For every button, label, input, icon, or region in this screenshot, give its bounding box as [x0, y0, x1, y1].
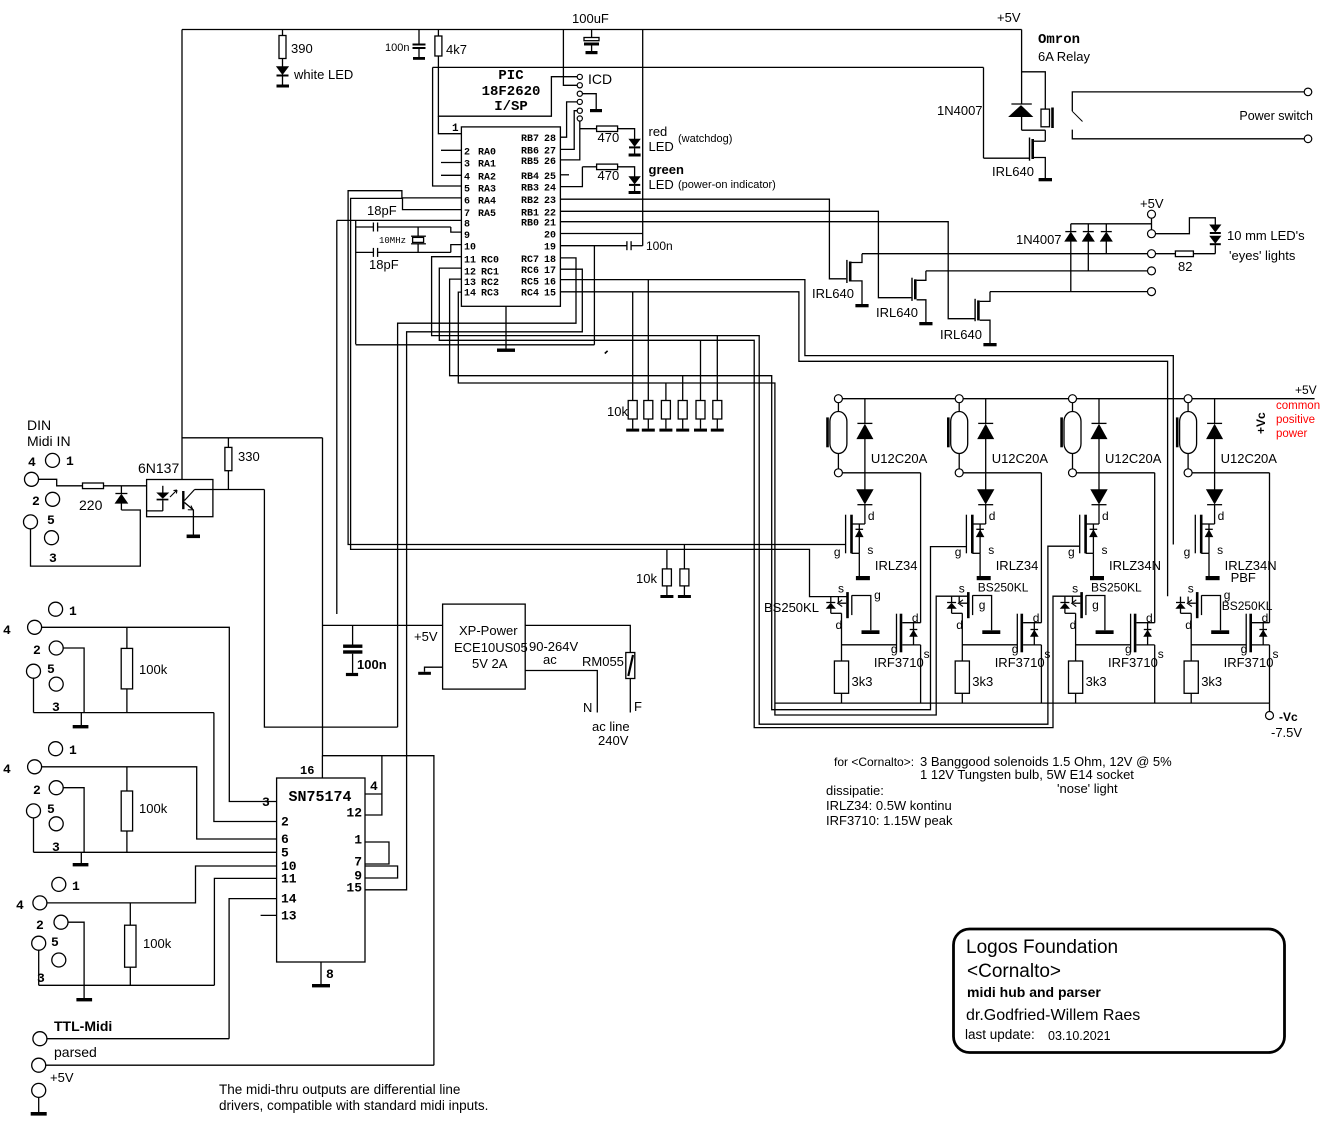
resistor R 82 [1193, 253, 1215, 255]
transistor IRF3710 driver3 [1130, 614, 1132, 653]
resistor R 3k3 driver1 [834, 661, 848, 693]
tick mark [605, 351, 608, 354]
fuse RM055 [626, 653, 635, 679]
svg-text:4: 4 [28, 455, 36, 470]
svg-text:IRF3710: 1.15W peak: IRF3710: 1.15W peak [826, 813, 953, 828]
svg-text:6N137: 6N137 [138, 460, 179, 476]
wire SN75174 pins7/9 bracket [365, 866, 398, 878]
diode D 1N4007 flyback driver4 [1214, 399, 1216, 424]
svg-text:4: 4 [370, 779, 378, 794]
svg-text:U12C20A: U12C20A [992, 451, 1049, 466]
svg-text:16: 16 [300, 764, 314, 778]
svg-text:220: 220 [79, 497, 103, 513]
svg-text:ICD: ICD [588, 71, 612, 87]
diode D U12C20A series driver4 [1214, 473, 1216, 490]
svg-text:18pF: 18pF [369, 257, 399, 272]
connector -Vc terminal [1269, 703, 1271, 711]
svg-text:RC7: RC7 [521, 255, 539, 266]
connector power switch terminals [1304, 88, 1312, 96]
capacitor C 100n at pin19 [626, 241, 628, 250]
svg-text:390: 390 [291, 41, 313, 56]
wire IRF3710 source driver2 to -Vc bus [1040, 645, 1042, 703]
svg-text:2: 2 [281, 815, 289, 830]
svg-text:9: 9 [464, 231, 470, 242]
svg-text:100n: 100n [357, 657, 387, 672]
wire pin9 to crystal [451, 227, 462, 232]
wire DIN3 ground loop to SN75174 pin5 [33, 818, 35, 852]
svg-text:1: 1 [69, 743, 77, 758]
ground TTL [83, 985, 85, 998]
wire DIN3 pin4 to SN75174 pin6 [42, 767, 277, 839]
wire driver3 gate link [1076, 644, 1131, 646]
IC U3 SN75174 body [277, 778, 365, 962]
svg-text:19: 19 [544, 243, 556, 254]
svg-text:25: 25 [544, 172, 556, 183]
wire ICD pin2 to +5V [563, 67, 577, 85]
svg-text:midi hub and parser: midi hub and parser [967, 984, 1101, 1000]
transistor IRLZ34N driver4 [1201, 523, 1214, 525]
wire PIC pin17 RC6 to SN75174 pin15 [365, 269, 582, 890]
svg-text:F: F [634, 699, 642, 714]
svg-text:2: 2 [33, 783, 41, 798]
diode D 1N4007 flyback driver1 [864, 399, 866, 424]
svg-text:100k: 100k [139, 662, 168, 677]
svg-text:DIN: DIN [27, 417, 51, 433]
wire +5V to relay [1021, 30, 1023, 105]
svg-text:18: 18 [544, 255, 556, 266]
wire 6N137 output to PIC RX [264, 490, 397, 728]
svg-text:LED: LED [649, 139, 674, 154]
svg-text:ECE10US05: ECE10US05 [454, 640, 528, 655]
wire parsed out to SN75174 pin14 [47, 1038, 229, 1040]
svg-text:Power switch: Power switch [1239, 109, 1313, 123]
wire DIN2 ground loop [33, 678, 35, 712]
svg-text:10MHz: 10MHz [379, 236, 406, 246]
svg-text:-Vc: -Vc [1279, 710, 1298, 724]
svg-text:The midi-thru outputs are diff: The midi-thru outputs are differential l… [219, 1082, 460, 1097]
svg-text:d: d [956, 618, 963, 632]
svg-text:1 12V Tungsten bulb, 5W E14 so: 1 12V Tungsten bulb, 5W E14 socket [920, 767, 1134, 782]
svg-text:100n: 100n [646, 239, 673, 253]
wire PIC pin8 Vss [337, 219, 462, 221]
svg-text:6: 6 [464, 197, 470, 208]
svg-text:1: 1 [354, 833, 362, 848]
svg-text:last update:: last update: [965, 1027, 1035, 1042]
ground PIC Vss [505, 306, 507, 348]
svg-text:13: 13 [281, 908, 297, 923]
svg-text:s: s [1188, 582, 1194, 596]
diode D U12C20A series driver1 [864, 473, 866, 490]
wire SN75174 pins1/7 bracket [365, 842, 389, 864]
wire driver1 return [842, 472, 920, 474]
6N137 internal LED [162, 486, 164, 493]
svg-text:IRLZ34: IRLZ34 [996, 558, 1039, 573]
wire driver4 gate link [1191, 644, 1246, 646]
svg-text:27: 27 [544, 146, 556, 157]
svg-text:3: 3 [464, 160, 470, 171]
svg-text:RA1: RA1 [478, 160, 496, 171]
svg-text:100n: 100n [385, 42, 409, 54]
wire PIC pin4 stub [441, 174, 461, 176]
connector solenoid 1 bottom [834, 469, 842, 477]
optocoupler U2 6N137 box [147, 480, 213, 517]
svg-text:+Vc: +Vc [1254, 412, 1268, 434]
svg-text:RC6: RC6 [521, 266, 539, 277]
svg-text:s: s [1102, 543, 1108, 557]
svg-text:3: 3 [262, 795, 270, 810]
svg-text:g: g [834, 545, 841, 559]
svg-text:12: 12 [346, 806, 362, 821]
resistor R 390 [282, 30, 284, 36]
svg-text:6A Relay: 6A Relay [1038, 49, 1091, 64]
svg-text:RA0: RA0 [478, 147, 496, 158]
svg-text:N: N [583, 700, 592, 715]
svg-text:RA2: RA2 [478, 172, 496, 183]
svg-text:1: 1 [72, 879, 80, 894]
svg-text:100k: 100k [143, 936, 172, 951]
svg-text:RB1: RB1 [521, 208, 539, 219]
svg-text:d: d [836, 618, 843, 632]
power supply XP-Power box [443, 604, 526, 689]
wire +5V net from rail to XP and outputs [323, 438, 434, 1065]
wire PIC pin18 RC7 from 6N137 output [398, 258, 576, 727]
wire Q4 drain to eyes connector [990, 291, 1148, 293]
wire relay coil bottom [1022, 129, 1046, 131]
svg-text:2: 2 [36, 918, 44, 933]
wire PIC pin14 RC3 to driver2 source line [458, 292, 968, 715]
svg-text:4: 4 [464, 172, 470, 183]
svg-text:28: 28 [544, 134, 556, 145]
svg-text:U12C20A: U12C20A [1221, 451, 1278, 466]
svg-text:3k3: 3k3 [852, 674, 873, 689]
svg-text:green: green [649, 162, 684, 177]
svg-text:03.10.2021: 03.10.2021 [1048, 1029, 1111, 1043]
svg-text:3k3: 3k3 [1086, 674, 1107, 689]
svg-text:s: s [1217, 543, 1223, 557]
green LED D green [618, 167, 635, 177]
svg-text:RC3: RC3 [481, 289, 499, 300]
svg-text:1: 1 [66, 454, 74, 469]
svg-text:4: 4 [3, 623, 11, 638]
wire driver2 return [963, 472, 1041, 474]
svg-text:+5V: +5V [414, 629, 438, 644]
svg-text:IRF3710: IRF3710 [1108, 655, 1158, 670]
svg-text:SN75174: SN75174 [289, 789, 352, 806]
connector DIN2 midi thru A [49, 602, 63, 616]
connector TTL-Midi parsed out [33, 1032, 47, 1046]
svg-text:s: s [838, 582, 844, 596]
switch relay contact [1072, 92, 1304, 111]
svg-text:white LED: white LED [293, 67, 353, 82]
svg-text:BS250KL: BS250KL [764, 600, 819, 615]
svg-text:d: d [868, 509, 875, 523]
wire IRF3710 source driver3 to -Vc bus [1154, 645, 1156, 703]
wire 6N137 collector output [195, 489, 213, 491]
transistor IRF3710 driver2 [1016, 614, 1018, 653]
svg-text:drivers, compatible with stand: drivers, compatible with standard midi i… [219, 1098, 488, 1113]
svg-text:15: 15 [544, 289, 556, 300]
svg-text:g: g [1092, 598, 1099, 612]
LEDs D 10mm eyes [1210, 225, 1221, 232]
svg-text:U12C20A: U12C20A [871, 451, 928, 466]
ground 6N137 emitter [192, 517, 194, 535]
wire driver1 gate link [842, 644, 897, 646]
svg-text:s: s [1158, 647, 1164, 661]
svg-text:s: s [1044, 647, 1050, 661]
svg-text:IRL640: IRL640 [940, 327, 982, 342]
transistor Q1 IRL640 relay driver [983, 67, 985, 158]
svg-text:26: 26 [544, 157, 556, 168]
solenoid L2 [947, 417, 950, 447]
svg-text:g: g [1224, 588, 1231, 602]
svg-text:d: d [1102, 509, 1109, 523]
diode D 1N4007 flyback driver3 [1098, 399, 1100, 424]
svg-text:24: 24 [544, 184, 556, 195]
resistor R 3k3 driver2 [955, 661, 969, 693]
wire relay coil branch [1022, 72, 1046, 109]
svg-text:RB3: RB3 [521, 184, 539, 195]
svg-text:2: 2 [464, 147, 470, 158]
svg-text:BS250KL: BS250KL [1091, 581, 1142, 595]
connector solenoid 4 bottom [1184, 469, 1192, 477]
svg-text:IRLZ34: IRLZ34 [875, 558, 918, 573]
wire PIC pin3 stub [441, 162, 461, 164]
wire +5V rail mid left [182, 437, 323, 439]
svg-text:10: 10 [464, 243, 476, 254]
wire BS250KL drain driver2 [961, 613, 963, 661]
wire PIC pin21 RB0 to IRL640 Q4 gate [560, 222, 974, 319]
svg-text:IRF3710: IRF3710 [874, 655, 924, 670]
svg-text:8: 8 [464, 220, 470, 231]
wire TTL pin4 to SN75174 pin10 [47, 866, 277, 903]
resistor R 3k3 driver4 [1184, 661, 1198, 693]
ground DIN2 [80, 713, 82, 725]
wire eyes pin2 to LEDs [1156, 218, 1216, 234]
resistor R 4k7 [437, 30, 439, 37]
svg-text:11: 11 [464, 255, 476, 266]
svg-text:+5V: +5V [50, 1070, 74, 1085]
wire PIC pin16 RC5 to driver4 gate [560, 280, 1173, 545]
wire PIC pin7 RA5 to driver1 source line [351, 198, 848, 596]
wire +5V mid rail y67 [433, 66, 984, 68]
svg-text:RB6: RB6 [521, 146, 539, 157]
transistor Q3 IRL640 [911, 278, 913, 301]
connector DIN3 midi thru B [49, 742, 63, 756]
wire BS250KL drain driver3 [1075, 613, 1077, 661]
wire SN75174 pins4/12 Vcc [365, 794, 382, 815]
svg-text:XP-Power: XP-Power [459, 623, 518, 638]
svg-text:<Cornalto>: <Cornalto> [967, 961, 1061, 982]
svg-text:RC4: RC4 [521, 289, 539, 300]
wire XP +5V output [323, 624, 443, 626]
svg-text:RC2: RC2 [481, 278, 499, 289]
svg-text:positive: positive [1276, 414, 1315, 426]
connector DIN1 MIDI IN [46, 453, 60, 467]
svg-text:'nose' light: 'nose' light [1057, 781, 1118, 796]
resistor R 3k3 driver3 [1069, 661, 1083, 693]
wire PIC pin5 RA3 from mid rail [433, 67, 462, 186]
wire SN75174 pin13 stub [261, 914, 277, 916]
svg-text:+5V: +5V [997, 10, 1021, 25]
svg-text:2: 2 [32, 494, 40, 509]
wire XP ac line F [525, 625, 630, 652]
svg-text:parsed: parsed [54, 1044, 97, 1060]
svg-text:10k: 10k [607, 404, 628, 419]
svg-text:1N4007: 1N4007 [937, 103, 983, 118]
transistor IRF3710 driver1 [896, 614, 898, 653]
wire BS250KL drain driver4 [1190, 613, 1192, 661]
svg-text:5: 5 [47, 662, 55, 677]
connector ICD pins [577, 74, 582, 79]
wire pin10 to crystal [451, 245, 462, 253]
connector TTL midi DIN [52, 877, 66, 891]
wire PIC pin12 RC1 to driver3 source line [439, 268, 1081, 727]
svg-text:10k: 10k [636, 571, 657, 586]
wire -Vc bus [775, 702, 1270, 704]
wire crystal left leg [355, 220, 357, 344]
connector solenoid 4 top [1184, 395, 1192, 403]
svg-text:RA5: RA5 [478, 209, 496, 220]
svg-text:8: 8 [326, 967, 334, 982]
svg-text:d: d [1070, 618, 1077, 632]
connector solenoid 1 top [834, 395, 842, 403]
svg-text:22: 22 [544, 208, 556, 219]
svg-text:ac: ac [543, 652, 557, 667]
svg-text:23: 23 [544, 196, 556, 207]
wire Q3 drain to eyes connector [926, 270, 1148, 272]
wire DIN1 return loop [31, 510, 141, 566]
resistor R 330 [227, 438, 229, 448]
svg-text:RM055: RM055 [582, 654, 624, 669]
svg-text:g: g [874, 588, 881, 602]
svg-text:IRLZ34N: IRLZ34N [1109, 558, 1161, 573]
wire driver3 return [1077, 472, 1155, 474]
svg-text:Midi IN: Midi IN [27, 433, 71, 449]
resistor R 100k DIN3 [126, 767, 128, 791]
wire PIC pin19 to 100n [560, 245, 626, 247]
svg-text:RB5: RB5 [521, 157, 539, 168]
svg-text:Omron: Omron [1038, 32, 1080, 48]
svg-text:3k3: 3k3 [1201, 674, 1222, 689]
wire PIC pin13 RC2 to driver2 gate [450, 279, 966, 710]
svg-text:16: 16 [544, 277, 556, 288]
svg-text:+5V: +5V [1140, 196, 1164, 211]
svg-text:82: 82 [1178, 259, 1192, 274]
svg-text:(power-on indicator): (power-on indicator) [678, 179, 776, 191]
wire TTL ground loop to SN75174 pin11 [38, 950, 40, 985]
resistor R 220 [83, 483, 104, 489]
wire ICD pin6 to PIC pin26 [560, 121, 579, 160]
svg-text:17: 17 [544, 266, 556, 277]
wire +Vc top rail drivers [834, 398, 1315, 400]
svg-text:18pF: 18pF [367, 203, 397, 218]
svg-text:IRL640: IRL640 [992, 164, 1034, 179]
connector eyes +5V pin [1148, 210, 1156, 218]
wire DIN1 pin4 to R220 [39, 479, 83, 486]
wire PIC pin19 Vss down to ground line [593, 246, 595, 345]
svg-text:g: g [1184, 545, 1191, 559]
svg-text:RB2: RB2 [521, 196, 539, 207]
solenoid L4 [1176, 417, 1179, 447]
wire +5V left drop to 6N137 Vcc [181, 30, 183, 480]
transistor IRLZ34 driver2 [972, 523, 985, 525]
resistor R 100k DIN2 [126, 627, 128, 648]
svg-text:d: d [989, 509, 996, 523]
connector solenoid 3 bottom [1069, 469, 1077, 477]
wire top rail to mid rail at x563 [562, 30, 564, 68]
svg-text:IRLZ34: 0.5W kontinu: IRLZ34: 0.5W kontinu [826, 798, 952, 813]
transistor Q4 IRL640 [974, 299, 976, 321]
svg-text:10 mm LED's: 10 mm LED's [1227, 228, 1305, 243]
connector solenoid 3 top [1069, 395, 1077, 403]
wire crystal ground to PIC ground [356, 344, 595, 346]
svg-text:14: 14 [464, 289, 476, 300]
wire driver2 gate link [962, 644, 1017, 646]
svg-text:21: 21 [544, 219, 556, 230]
relay K1 Omron coil [1041, 109, 1050, 127]
IC U1 PIC18F2620 body [461, 127, 560, 306]
svg-text:13: 13 [464, 278, 476, 289]
wire PIC pin23 RB2 to IRL640 Q2 gate [560, 199, 846, 279]
diode D U12C20A series driver3 [1098, 473, 1100, 490]
svg-text:1: 1 [452, 123, 459, 135]
svg-text:20: 20 [544, 231, 556, 242]
wire IRF3710 source driver1 to -Vc bus [920, 645, 922, 703]
wire BS250KL drain driver1 [841, 613, 843, 661]
svg-text:s: s [959, 582, 965, 596]
svg-text:IRF3710: IRF3710 [1224, 655, 1274, 670]
svg-text:(watchdog): (watchdog) [678, 133, 732, 145]
svg-text:4: 4 [3, 762, 11, 777]
svg-text:s: s [988, 543, 994, 557]
svg-text:dissipatie:: dissipatie: [826, 783, 884, 798]
svg-text:RA4: RA4 [478, 197, 496, 208]
connector solenoid 2 bottom [955, 469, 963, 477]
wire DIN2 pin4 to SN75174 pin3 [42, 627, 277, 801]
wire ICD pin5 to PIC pin27 [560, 111, 577, 150]
wire Q2 drain to eyes connector [862, 253, 1148, 255]
resistor R 100k TTL [129, 903, 131, 925]
svg-text:5V 2A: 5V 2A [472, 656, 508, 671]
svg-text:for <Cornalto>:: for <Cornalto>: [834, 755, 914, 769]
ground terminal [38, 1097, 40, 1112]
diode D U12C20A series driver2 [985, 473, 987, 490]
white LED D white [282, 59, 284, 67]
diode D 1N4007 flyback driver2 [985, 399, 987, 424]
svg-text:common: common [1276, 400, 1320, 412]
svg-text:s: s [867, 543, 873, 557]
svg-text:+5V: +5V [1295, 383, 1317, 397]
wire SN75174 pin16 Vcc stub [321, 756, 323, 778]
red LED D red [618, 129, 635, 139]
svg-text:s: s [1072, 582, 1078, 596]
resistor R 470 watchdog [580, 128, 597, 130]
connector +5V out [32, 1058, 46, 1072]
wire PIC pin22 RB1 to IRL640 Q3 gate [560, 211, 911, 297]
wire PIC pin11 RC0 to driver3 gate [432, 257, 1080, 725]
svg-text:IRL640: IRL640 [812, 286, 854, 301]
capacitor C 100n XP [352, 625, 354, 644]
svg-text:U12C20A: U12C20A [1105, 451, 1162, 466]
svg-text:3k3: 3k3 [972, 674, 993, 689]
svg-text:LED: LED [649, 177, 674, 192]
svg-text:5: 5 [51, 935, 59, 950]
6N137 phototransistor [182, 491, 184, 509]
title block Logos Foundation [954, 929, 1285, 1053]
svg-text:2: 2 [33, 643, 41, 658]
svg-text:4: 4 [16, 898, 24, 913]
svg-text:Logos Foundation: Logos Foundation [966, 937, 1118, 958]
